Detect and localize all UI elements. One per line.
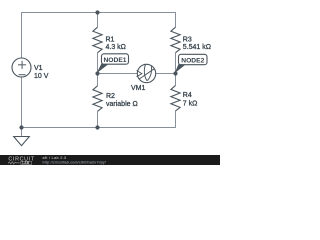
svg-text:4.3 kΩ: 4.3 kΩ — [106, 44, 126, 51]
svg-text:R1: R1 — [106, 37, 115, 44]
svg-text:VM1: VM1 — [131, 85, 146, 92]
svg-text:10 V: 10 V — [34, 73, 49, 80]
svg-text:R3: R3 — [183, 37, 192, 44]
svg-text:variable Ω: variable Ω — [106, 101, 138, 108]
svg-text:R4: R4 — [183, 92, 192, 99]
svg-text:7 kΩ: 7 kΩ — [183, 101, 198, 108]
svg-text:http://circuitlab.com/c/bhfna2: http://circuitlab.com/c/bhfna2e7djq7 — [43, 160, 107, 164]
svg-text:V1: V1 — [34, 65, 43, 72]
svg-text:R2: R2 — [106, 93, 115, 100]
svg-text:LAB: LAB — [22, 161, 29, 165]
svg-text:NODE1: NODE1 — [103, 57, 126, 64]
svg-text:5.541 kΩ: 5.541 kΩ — [183, 44, 211, 51]
svg-text:NODE2: NODE2 — [181, 57, 204, 64]
svg-text:aft / Lab 2.3: aft / Lab 2.3 — [43, 156, 67, 160]
